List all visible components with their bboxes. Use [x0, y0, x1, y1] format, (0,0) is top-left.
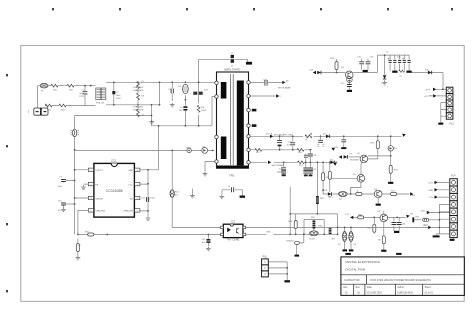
svg-text:1000u: 1000u — [277, 172, 284, 174]
svg-text:CC02A385: CC02A385 — [106, 189, 123, 193]
svg-text:+12V: +12V — [428, 182, 434, 184]
svg-text:SPACING: SPACING — [95, 210, 105, 213]
svg-text:01 of 01: 01 of 01 — [425, 292, 434, 294]
svg-text:Author:: Author: — [397, 286, 405, 289]
svg-text:12V: 12V — [335, 147, 339, 149]
svg-text:PL6: PL6 — [263, 255, 268, 258]
svg-text:Rev:: Rev: — [356, 287, 361, 289]
svg-text:CAPACITOR: CAPACITOR — [344, 278, 359, 282]
svg-text:BC858M: BC858M — [350, 160, 358, 162]
svg-text:SECONDARY_GND: SECONDARY_GND — [274, 133, 293, 136]
svg-text:PR01: PR01 — [186, 148, 192, 150]
svg-text:TNY CORE: TNY CORE — [227, 239, 240, 242]
svg-text:Date:: Date: — [367, 286, 373, 289]
svg-text:PRE-L01: PRE-L01 — [96, 103, 105, 105]
svg-text:NTC: NTC — [204, 90, 209, 92]
svg-text:2kV: 2kV — [179, 110, 183, 112]
svg-text:12V_A: 12V_A — [266, 133, 273, 136]
svg-text:Sheet:: Sheet: — [425, 286, 432, 289]
svg-text:12V: 12V — [345, 214, 349, 216]
svg-text:PL4: PL4 — [451, 175, 456, 178]
svg-text:12V: 12V — [410, 214, 414, 216]
svg-text:05 JUNE 2003: 05 JUNE 2003 — [367, 292, 383, 294]
svg-text:VCC: VCC — [128, 184, 133, 186]
svg-text:DURSUN AKIN: DURSUN AKIN — [397, 291, 413, 294]
svg-text:+5V: +5V — [424, 96, 428, 98]
svg-text:SENSE: SENSE — [95, 198, 103, 200]
svg-text:12Va: 12Va — [421, 211, 427, 213]
svg-text:CHARGED: CHARGED — [133, 89, 144, 92]
svg-text:GND: GND — [428, 190, 433, 192]
svg-text:PL2: PL2 — [450, 123, 455, 126]
svg-text:SECONDARY: SECONDARY — [272, 164, 286, 167]
svg-text:275V: 275V — [116, 98, 121, 100]
svg-text:CC1: CC1 — [111, 159, 117, 163]
svg-text:GND: GND — [128, 170, 133, 172]
svg-text:+5V: +5V — [429, 197, 433, 199]
svg-text:DIGITAL PWB: DIGITAL PWB — [345, 267, 365, 271]
svg-text:275V: 275V — [79, 96, 84, 98]
svg-text:CHARGED: CHARGED — [133, 105, 144, 108]
svg-text:CHARGED: CHARGED — [133, 108, 144, 111]
svg-text:TL431: TL431 — [309, 239, 316, 241]
svg-text:NC: NC — [130, 198, 134, 200]
svg-text:TR1: TR1 — [229, 174, 235, 178]
svg-text:Rev:: Rev: — [343, 287, 348, 289]
svg-text:IC2: IC2 — [231, 220, 236, 224]
svg-text:1R: 1R — [378, 240, 381, 242]
svg-text:DVD 27ES 28A43V POWER BOARD SC: DVD 27ES 28A43V POWER BOARD SCHEMATIC — [370, 278, 431, 282]
svg-text:SPS PLANAR: SPS PLANAR — [278, 86, 292, 89]
svg-text:1N4148: 1N4148 — [286, 241, 294, 243]
svg-text:CHARGED: CHARGED — [133, 86, 144, 89]
svg-text:SPACING: SPACING — [123, 210, 133, 213]
svg-text:SMPS_TRAFO: SMPS_TRAFO — [224, 68, 240, 71]
svg-text:SOFTS: SOFTS — [95, 170, 103, 172]
svg-text:VESTEL ELECTRONICS: VESTEL ELECTRONICS — [345, 260, 380, 264]
